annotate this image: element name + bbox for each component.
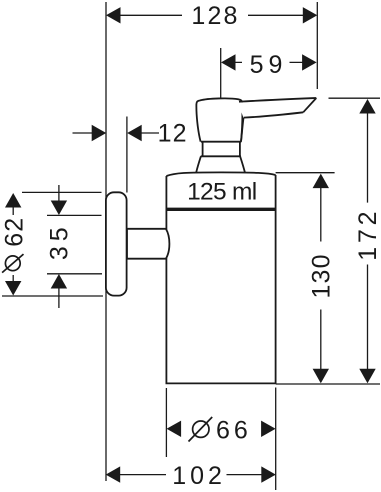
svg-text:59: 59: [250, 51, 288, 79]
svg-text:62: 62: [0, 217, 28, 247]
svg-text:125 ml: 125 ml: [187, 179, 256, 206]
svg-text:12: 12: [158, 119, 188, 147]
svg-text:102: 102: [172, 462, 226, 490]
svg-text:130: 130: [308, 253, 336, 298]
svg-text:128: 128: [191, 2, 239, 30]
svg-text:172: 172: [354, 208, 381, 261]
svg-text:35: 35: [45, 222, 73, 260]
svg-text:66: 66: [216, 417, 252, 445]
